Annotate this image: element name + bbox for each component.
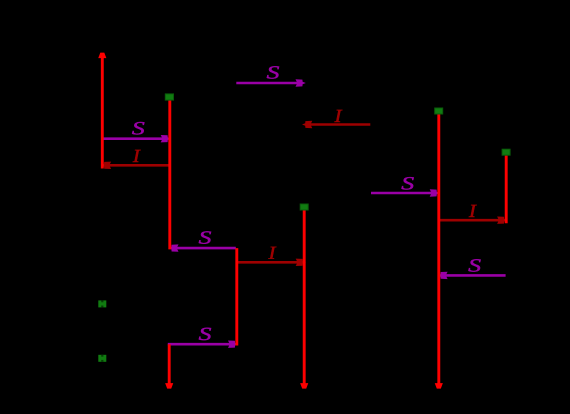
S contact arrow site2 to site3 — [168, 328, 239, 348]
timeline site4 infected segment with down continuation arrow — [300, 207, 308, 388]
I contact arrow site6 to site7 — [439, 205, 508, 224]
I contact arrow site3 to site4 lower — [237, 247, 306, 266]
timeline site3 infected segment — [235, 248, 238, 345]
S contact arrow site3 to site2 — [168, 231, 236, 251]
I contact arrow site2 to site1 — [101, 150, 170, 169]
S contact arrow site3 to site4 — [236, 66, 305, 86]
I contact arrow site5 to site4 — [302, 110, 370, 128]
S contact arrow site1 to site2 — [102, 122, 171, 142]
recovery mark double square site1 lower — [98, 355, 106, 362]
recovery mark square site4 — [300, 204, 308, 210]
timeline site6 infected segment with down continuation arrow — [435, 111, 443, 388]
S contact arrow site5 to site6 — [371, 177, 440, 197]
recovery mark double square site1 upper — [98, 300, 106, 307]
timeline site2 infected segment — [168, 98, 171, 250]
timeline site7 infected segment — [505, 152, 508, 223]
S contact arrow site7 to site6 — [437, 259, 505, 279]
recovery mark square site6 — [435, 108, 443, 114]
recovery mark square site2 — [165, 94, 173, 100]
timeline site2 lower infected segment with down continuation arrow — [165, 344, 173, 388]
recovery mark square site7 — [502, 149, 510, 155]
timeline site1 infected segment with up continuation arrow — [98, 53, 106, 169]
